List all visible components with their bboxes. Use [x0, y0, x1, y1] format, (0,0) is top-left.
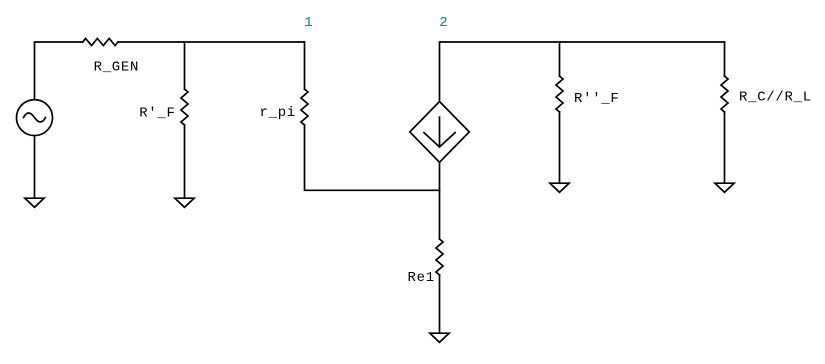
wire R'_F to ground — [184, 125, 186, 198]
resistor Re1 — [436, 239, 443, 275]
wire source bottom to ground — [34, 136, 36, 199]
ground (R_C//R_L) — [715, 183, 734, 192]
resistor R'_F — [181, 89, 188, 125]
dependent current source F1 diamond — [410, 102, 470, 163]
wire node2 down to R''_F — [559, 42, 561, 76]
svg-text:2: 2 — [439, 15, 447, 31]
wire Re1 to ground — [439, 275, 441, 333]
ground (R'_F) — [175, 198, 194, 207]
wire node 2 rail — [440, 42, 725, 102]
resistor r_pi — [301, 89, 308, 125]
svg-text:R'_F: R'_F — [139, 106, 175, 122]
wire diamond bottom through junction to Re1 — [439, 162, 441, 239]
wire r_pi down and right to dependent source bottom node — [305, 125, 440, 190]
svg-text:R_GEN: R_GEN — [94, 60, 140, 76]
label R_GEN — [94, 60, 140, 76]
node 2 — [439, 15, 447, 31]
wire down to R_C//R_L — [724, 42, 726, 76]
voltage source V1 — [17, 100, 53, 136]
svg-text:1: 1 — [304, 15, 312, 31]
ground (R''_F) — [550, 183, 569, 192]
ground (Re1) — [430, 333, 449, 342]
wire node 1 corner down to r_pi — [304, 42, 306, 89]
ground (source) — [25, 198, 44, 207]
wire R_GEN to node 1 corner — [118, 41, 305, 43]
resistor R''_F — [556, 76, 563, 112]
svg-text:r_pi: r_pi — [260, 105, 296, 121]
svg-text:R''_F: R''_F — [574, 91, 620, 107]
wire R_C//R_L to ground — [724, 112, 726, 183]
resistor R_C//R_L — [721, 76, 728, 112]
wire node1 rail down to R'_F — [184, 42, 186, 89]
wire R''_F to ground — [559, 112, 561, 183]
label r_pi — [260, 105, 296, 121]
label R''_F — [574, 91, 620, 107]
wire top-left rail from source corner to R_GEN — [35, 42, 83, 100]
label Re1 — [408, 270, 435, 286]
label R'_F — [139, 106, 175, 122]
svg-text:R_C//R_L: R_C//R_L — [739, 90, 812, 106]
label R_C//R_L — [739, 90, 812, 106]
node 1 — [304, 15, 312, 31]
resistor R_GEN — [83, 39, 118, 46]
svg-text:Re1: Re1 — [408, 270, 435, 286]
